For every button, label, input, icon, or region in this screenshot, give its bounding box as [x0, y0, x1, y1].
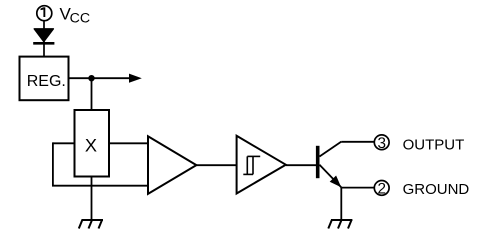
svg-text:3: 3	[377, 135, 386, 152]
svg-text:CC: CC	[70, 11, 91, 27]
svg-text:OUTPUT: OUTPUT	[403, 136, 465, 153]
svg-text:2: 2	[377, 181, 386, 198]
svg-text:X: X	[85, 136, 97, 156]
svg-text:REG.: REG.	[27, 73, 66, 90]
svg-text:GROUND: GROUND	[403, 181, 470, 198]
